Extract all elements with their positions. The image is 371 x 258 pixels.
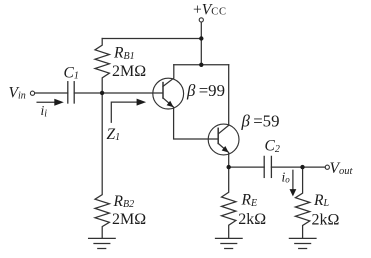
svg-text:β =59: β =59 xyxy=(241,112,280,131)
svg-text:2kΩ: 2kΩ xyxy=(238,211,266,228)
svg-text:2kΩ: 2kΩ xyxy=(312,211,340,228)
svg-text:2MΩ: 2MΩ xyxy=(112,211,146,228)
svg-text:β =99: β =99 xyxy=(186,81,225,100)
svg-text:2MΩ: 2MΩ xyxy=(112,63,146,80)
